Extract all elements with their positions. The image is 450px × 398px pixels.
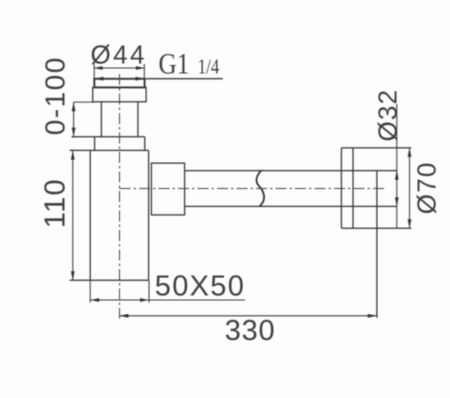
- svg-text:50X50: 50X50: [155, 270, 245, 302]
- svg-text:1/4: 1/4: [198, 55, 220, 79]
- svg-text:110: 110: [39, 178, 71, 228]
- svg-text:Ø32: Ø32: [372, 89, 402, 142]
- svg-text:Ø44: Ø44: [91, 39, 147, 69]
- svg-text:G1: G1: [159, 48, 190, 81]
- svg-text:330: 330: [225, 315, 275, 347]
- svg-text:0-100: 0-100: [39, 56, 70, 135]
- svg-text:Ø70: Ø70: [411, 161, 441, 214]
